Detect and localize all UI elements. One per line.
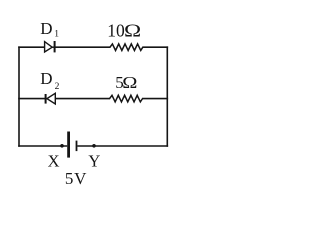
label D1	[40, 19, 59, 40]
label X battery terminal	[48, 152, 60, 171]
diode D1	[45, 41, 55, 52]
node Y terminal dot	[92, 144, 96, 148]
node X terminal dot	[60, 144, 64, 148]
wire bottom left segment	[18, 145, 67, 147]
resistor R2 5Ω	[110, 95, 143, 102]
wire left vertical	[18, 46, 20, 146]
diode D2	[46, 93, 56, 104]
svg-text:D: D	[40, 19, 52, 38]
svg-text:X: X	[48, 152, 60, 171]
resistor R1 10Ω	[110, 44, 143, 51]
svg-text:5V: 5V	[65, 169, 87, 188]
label 5Ω value of R2	[115, 73, 137, 93]
wire middle right segment	[142, 98, 168, 100]
svg-text:D: D	[40, 69, 52, 88]
svg-text:Ω: Ω	[124, 22, 141, 41]
wire top right segment	[142, 46, 168, 48]
wire top left segment	[18, 46, 44, 48]
svg-text:Ω: Ω	[122, 74, 137, 93]
svg-text:2: 2	[55, 82, 60, 92]
svg-text:1: 1	[54, 30, 59, 40]
wire bottom right segment	[77, 145, 168, 147]
wire middle center segment	[55, 98, 110, 100]
battery 5V plate short	[76, 141, 78, 152]
wire top middle segment	[56, 46, 111, 48]
label 10Ω value of R1	[107, 21, 141, 41]
label 5V battery voltage	[65, 169, 87, 188]
battery 5V plate long	[67, 132, 70, 158]
svg-text:Y: Y	[88, 152, 100, 171]
label Y battery terminal	[88, 152, 100, 171]
wire right vertical	[166, 46, 168, 146]
label D2	[40, 69, 59, 92]
wire middle left segment	[18, 98, 45, 100]
svg-text:10: 10	[107, 21, 125, 41]
